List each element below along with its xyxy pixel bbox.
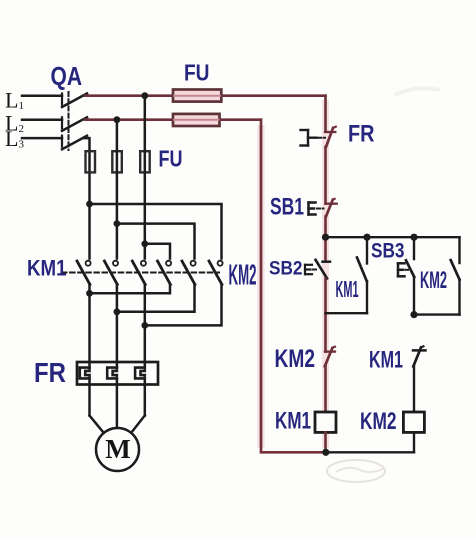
svg-text:SB2: SB2 xyxy=(269,259,303,280)
svg-text:SB1: SB1 xyxy=(270,194,304,221)
svg-text:QA: QA xyxy=(51,61,83,91)
svg-text:KM2: KM2 xyxy=(229,260,257,292)
svg-text:KM2: KM2 xyxy=(360,408,397,435)
svg-text:FU: FU xyxy=(184,60,210,86)
svg-text:M: M xyxy=(105,434,130,464)
svg-text:KM1: KM1 xyxy=(275,408,311,435)
svg-text:SB3: SB3 xyxy=(371,240,405,263)
svg-text:KM2: KM2 xyxy=(275,345,316,373)
svg-text:FU: FU xyxy=(159,146,183,172)
svg-text:KM1: KM1 xyxy=(336,276,359,302)
svg-text:KM1: KM1 xyxy=(27,256,67,281)
svg-text:KM1: KM1 xyxy=(369,347,403,374)
svg-text:KM2: KM2 xyxy=(420,267,447,294)
svg-text:FR: FR xyxy=(348,121,375,148)
svg-text:FR: FR xyxy=(34,357,66,388)
